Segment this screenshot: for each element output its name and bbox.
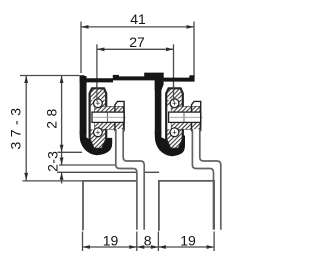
svg-text:27: 27	[129, 34, 145, 50]
axle shaft	[92, 112, 124, 122]
shaft hub division	[106, 113, 108, 122]
dimension 28 line	[61, 76, 63, 153]
centerline roller 1	[96, 44, 98, 102]
ball bearing bottom	[94, 128, 103, 137]
ball bearing top	[94, 99, 103, 108]
flange plate	[115, 101, 124, 130]
middle wall head	[155, 80, 164, 91]
tick door1 left	[82, 232, 84, 252]
wheel rim top hatch	[91, 89, 106, 98]
svg-text:37-3: 37-3	[7, 103, 23, 149]
middle wall	[155, 80, 162, 135]
svg-text:2-3: 2-3	[44, 151, 60, 172]
centerline over wheel 2	[173, 85, 175, 102]
dimension 37-3 line	[25, 76, 27, 181]
dimension 41 line	[20, 22, 194, 184]
41 extension left	[80, 22, 82, 74]
wheel outline	[90, 88, 107, 149]
hanger strap 1	[116, 129, 144, 230]
2-3 arrow stems	[61, 153, 63, 165]
arrowheads 37-3	[24, 76, 28, 84]
centerline over wheel 1	[96, 85, 98, 102]
door panel 2	[159, 181, 214, 231]
svg-text:41: 41	[130, 11, 146, 27]
door panel 1	[83, 181, 137, 230]
svg-text:8: 8	[144, 232, 152, 248]
hanger strap 2	[192, 129, 220, 230]
top reference line left	[20, 75, 80, 77]
wheel body fill	[90, 88, 107, 149]
bottom dim line	[83, 246, 215, 248]
bottom dimension group	[83, 232, 215, 252]
dimension 27 line	[97, 48, 174, 50]
left wall foot (J-hook)	[80, 131, 113, 155]
tick door2 right	[213, 232, 215, 252]
axle centerline	[94, 116, 127, 118]
arrowheads 2-3 outside	[60, 158, 64, 166]
arrowheads 28	[60, 76, 64, 84]
tick door2 left	[157, 232, 159, 252]
arrowheads top dims	[24, 25, 194, 180]
left wall	[80, 76, 87, 135]
svg-text:28: 28	[43, 104, 59, 129]
ref line strap step	[59, 164, 115, 166]
lower shaft hatch band	[95, 122, 124, 129]
ref line door-top level left	[23, 180, 84, 182]
41 extension right	[193, 22, 195, 77]
upper shaft hatch band	[95, 106, 124, 112]
ref line track bottom	[58, 151, 83, 153]
roller assembly 2	[166, 88, 202, 149]
ref line lower hanger level	[57, 171, 159, 173]
side hatch beside bottom ball	[91, 129, 96, 137]
wheel rim bottom hatch	[91, 137, 106, 149]
tick door1 right	[136, 232, 138, 252]
roller assembly 1	[90, 88, 126, 149]
centerline roller 2	[173, 44, 175, 102]
middle wall foot (J-hook)	[155, 131, 185, 156]
svg-text:19: 19	[180, 232, 196, 248]
track profile: top plate with mounting hump	[80, 73, 195, 83]
svg-text:19: 19	[103, 232, 119, 248]
